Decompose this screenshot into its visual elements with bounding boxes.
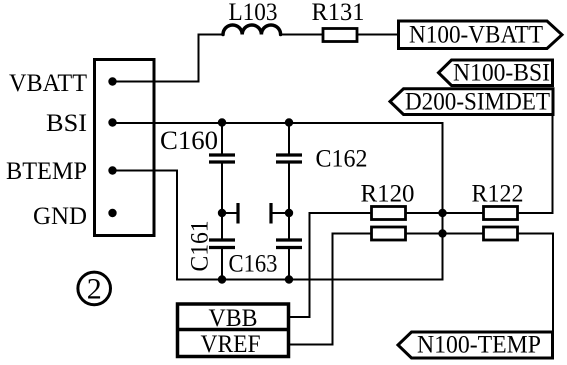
- svg-text:VBATT: VBATT: [9, 70, 87, 97]
- svg-text:C162: C162: [316, 146, 368, 173]
- svg-text:N100-BSI: N100-BSI: [453, 60, 550, 87]
- svg-text:2: 2: [87, 273, 102, 306]
- svg-text:R120: R120: [361, 181, 415, 208]
- inductor L103: [223, 25, 281, 35]
- svg-text:D200-SIMDET: D200-SIMDET: [405, 89, 550, 116]
- wire bottom row middle: [406, 233, 484, 235]
- capacitor C160 plates: [209, 155, 235, 162]
- pin BTEMP dot: [108, 166, 116, 174]
- block VBB/VREF outline: [178, 304, 289, 357]
- wire VREF to R120 bottom row: [289, 234, 372, 345]
- wire R122 up to flags: [518, 115, 553, 214]
- resistor R131: [323, 29, 357, 42]
- capacitor C161 lead wires: [221, 213, 223, 280]
- pin GND dot: [108, 209, 116, 217]
- capacitor C161 plates: [209, 240, 235, 248]
- wire bottom row to N100-TEMP: [518, 234, 554, 333]
- svg-text:VREF: VREF: [201, 331, 261, 358]
- node dot bottom line at C161: [218, 275, 226, 283]
- wire BSI line, central vertical, bottom line, BTEMP branch: [113, 123, 443, 280]
- node dot BSI line at C160: [218, 118, 226, 126]
- node junction dot C160/C161: [218, 209, 226, 217]
- svg-text:N100-TEMP: N100-TEMP: [417, 332, 541, 359]
- svg-text:BTEMP: BTEMP: [6, 158, 87, 185]
- wire VBB to R120 top row: [289, 213, 372, 317]
- wire R131 to N100-VBATT flag: [357, 34, 399, 36]
- sheet number circled 2: [78, 272, 111, 305]
- net flag N100-TEMP: [398, 332, 553, 358]
- connector X100 battery connector: [95, 60, 155, 236]
- resistor R123 (bottom right): [484, 227, 518, 240]
- svg-text:N100-VBATT: N100-VBATT: [409, 22, 543, 49]
- node dot BSI line at C162: [285, 118, 293, 126]
- capacitor C163 plates: [276, 240, 302, 248]
- svg-text:C161: C161: [187, 221, 214, 272]
- test point stub right column: [273, 212, 290, 214]
- node dot bottom line at C163: [285, 275, 293, 283]
- net flag N100-VBATT: [399, 21, 563, 49]
- svg-text:BSI: BSI: [46, 110, 87, 137]
- svg-text:VBB: VBB: [209, 305, 258, 332]
- svg-text:R131: R131: [312, 0, 365, 26]
- wire R120 to R122 top row: [406, 212, 484, 214]
- capacitor C160 lead wires: [221, 123, 223, 214]
- net flag D200-SIMDET: [390, 89, 553, 115]
- pin BSI dot: [108, 118, 116, 126]
- svg-text:GND: GND: [33, 203, 87, 230]
- node junction dot C162/C163: [285, 209, 293, 217]
- node dot central vertical top row: [438, 209, 446, 217]
- test point stub left column: [222, 212, 237, 214]
- svg-text:C163: C163: [229, 251, 278, 278]
- svg-text:L103: L103: [229, 0, 278, 26]
- capacitor C162 plates: [276, 155, 302, 162]
- pin VBATT dot: [108, 77, 116, 85]
- svg-text:R122: R122: [472, 181, 524, 208]
- capacitor C163 lead wires: [288, 213, 290, 280]
- svg-text:C160: C160: [160, 126, 218, 155]
- resistor R122 (top): [484, 207, 518, 220]
- resistor R121 (bottom left): [372, 227, 406, 240]
- divider VBB/VREF: [178, 328, 289, 332]
- capacitor C162 lead wires: [288, 123, 290, 214]
- wire L103 to R131: [281, 34, 323, 36]
- net flag N100-BSI: [439, 60, 553, 86]
- wire VBATT pin to L103: [113, 35, 224, 82]
- resistor R120 (top): [372, 207, 406, 220]
- node dot central vertical bottom row: [438, 229, 446, 237]
